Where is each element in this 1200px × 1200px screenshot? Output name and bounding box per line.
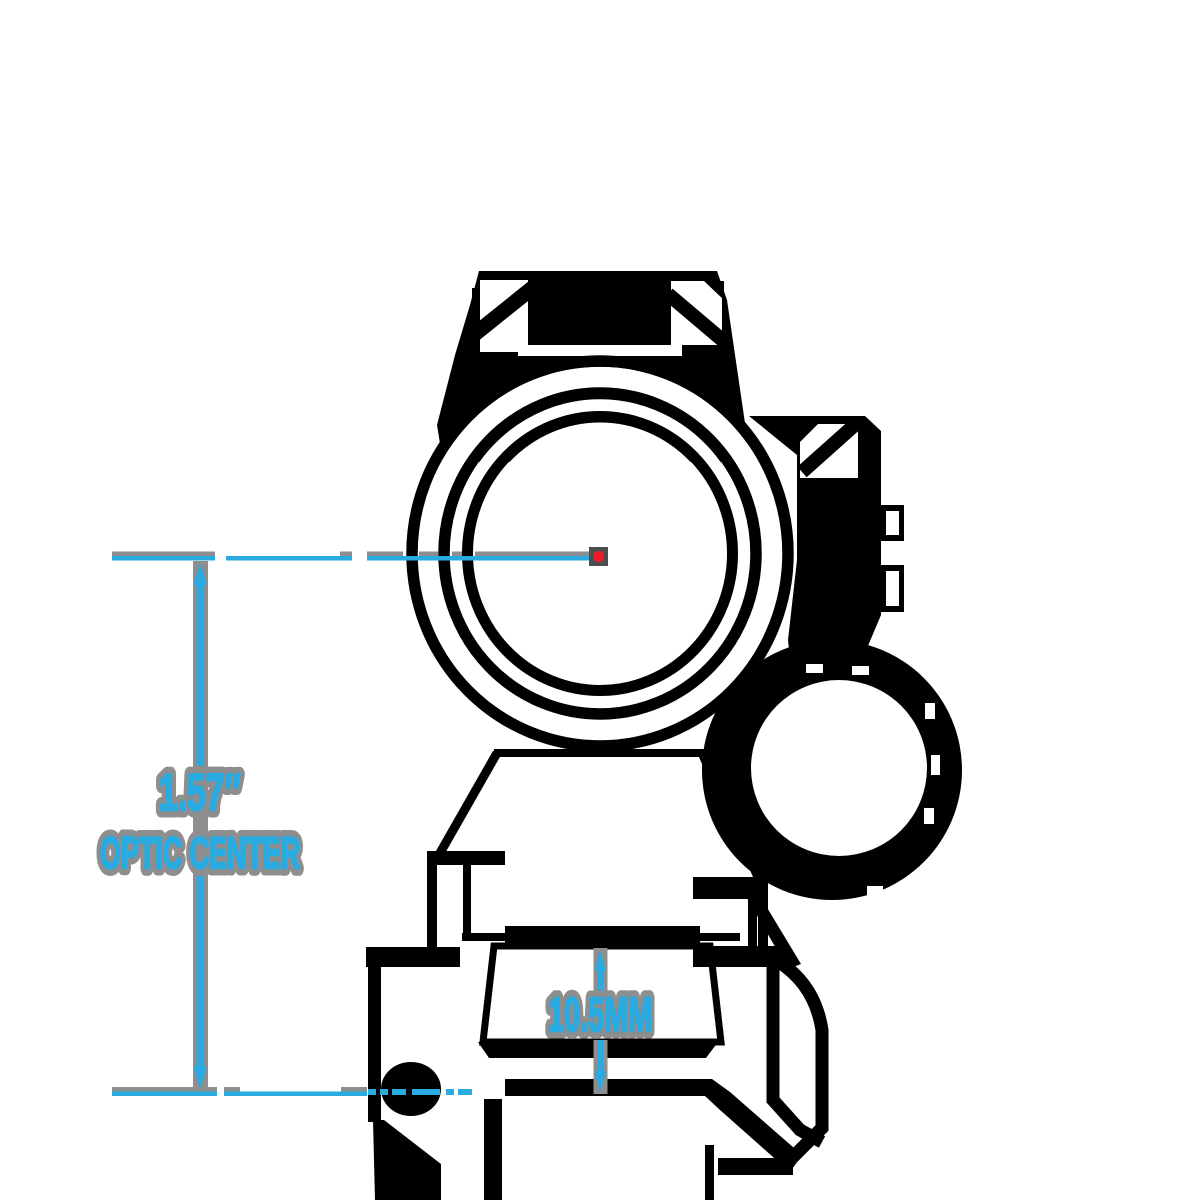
svg-text:1.57″: 1.57″ [159, 764, 241, 822]
svg-text:10.5MM: 10.5MM [548, 989, 652, 1042]
svg-text:OPTIC CENTER: OPTIC CENTER [100, 828, 300, 878]
